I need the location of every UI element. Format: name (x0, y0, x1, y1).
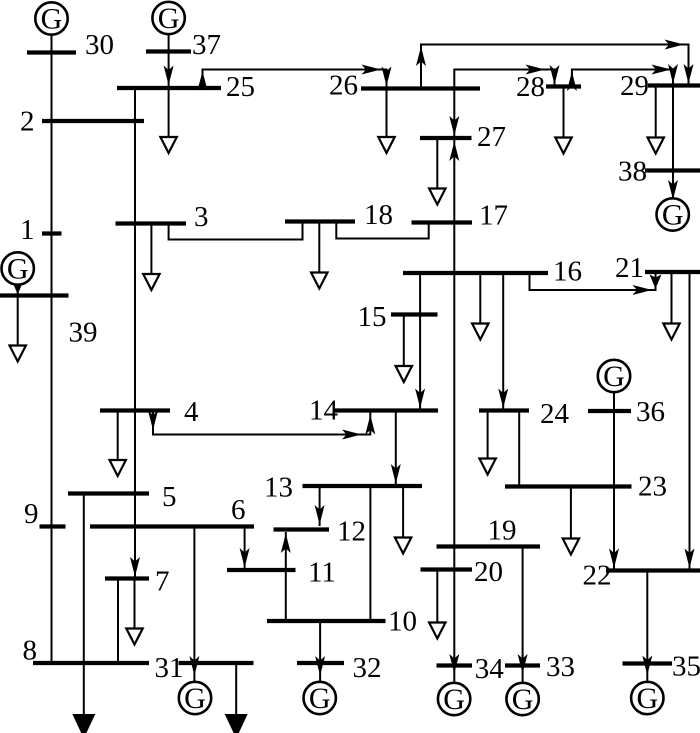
svg-text:24: 24 (540, 398, 570, 430)
svg-text:2: 2 (20, 106, 35, 138)
svg-text:36: 36 (636, 396, 665, 428)
svg-text:9: 9 (24, 498, 39, 530)
svg-text:13: 13 (264, 472, 293, 504)
svg-text:38: 38 (618, 156, 647, 188)
svg-text:5: 5 (162, 481, 177, 513)
svg-text:7: 7 (155, 566, 170, 598)
svg-text:11: 11 (308, 557, 336, 589)
svg-text:27: 27 (477, 121, 506, 153)
svg-text:4: 4 (184, 396, 199, 428)
svg-text:21: 21 (615, 252, 644, 284)
svg-text:G: G (636, 682, 658, 715)
svg-text:G: G (443, 683, 465, 716)
svg-text:G: G (158, 2, 180, 35)
svg-text:25: 25 (226, 71, 255, 103)
svg-text:29: 29 (620, 70, 649, 102)
svg-text:G: G (512, 683, 534, 716)
svg-text:33: 33 (546, 651, 575, 683)
svg-text:10: 10 (388, 606, 417, 638)
svg-text:30: 30 (85, 29, 114, 61)
svg-text:23: 23 (638, 471, 667, 503)
svg-text:15: 15 (358, 301, 387, 333)
svg-text:14: 14 (309, 395, 339, 427)
svg-text:3: 3 (194, 201, 209, 233)
svg-text:8: 8 (23, 635, 38, 667)
svg-text:28: 28 (516, 71, 545, 103)
svg-text:1: 1 (20, 214, 35, 246)
svg-text:35: 35 (672, 651, 700, 683)
svg-text:26: 26 (329, 70, 358, 102)
svg-text:18: 18 (364, 199, 393, 231)
svg-text:17: 17 (479, 200, 508, 232)
svg-text:G: G (603, 360, 625, 393)
svg-text:16: 16 (553, 256, 582, 288)
svg-text:31: 31 (155, 652, 184, 684)
svg-text:37: 37 (192, 29, 221, 61)
svg-text:G: G (41, 3, 63, 36)
svg-text:34: 34 (475, 653, 505, 685)
svg-text:6: 6 (231, 494, 246, 526)
svg-text:19: 19 (488, 515, 517, 547)
svg-text:22: 22 (583, 560, 612, 592)
svg-text:12: 12 (337, 516, 366, 548)
svg-text:G: G (184, 682, 206, 715)
svg-text:39: 39 (69, 317, 98, 349)
svg-text:32: 32 (353, 652, 382, 684)
svg-text:G: G (309, 682, 331, 715)
svg-text:G: G (7, 253, 29, 286)
svg-text:20: 20 (474, 556, 503, 588)
svg-text:G: G (662, 199, 684, 232)
